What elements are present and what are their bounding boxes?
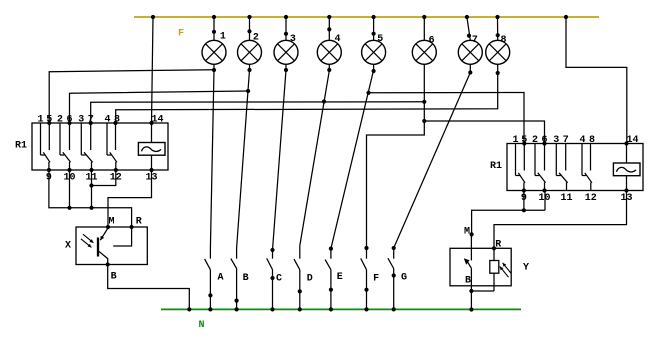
svg-text:4: 4 <box>579 135 585 146</box>
svg-text:G: G <box>401 272 407 283</box>
svg-text:M: M <box>464 226 470 237</box>
svg-text:2: 2 <box>532 135 538 146</box>
svg-text:Y: Y <box>523 263 529 274</box>
svg-text:8: 8 <box>589 135 595 146</box>
svg-text:1: 1 <box>220 31 226 42</box>
svg-text:1: 1 <box>512 135 518 146</box>
svg-text:B: B <box>465 276 471 287</box>
svg-text:B: B <box>243 273 249 284</box>
svg-text:D: D <box>307 274 313 285</box>
svg-text:2: 2 <box>57 115 63 126</box>
svg-text:M: M <box>109 217 115 228</box>
svg-text:A: A <box>218 273 224 284</box>
svg-text:11: 11 <box>560 193 572 204</box>
svg-text:F: F <box>178 29 184 40</box>
svg-text:1: 1 <box>37 115 43 126</box>
svg-text:R: R <box>495 240 501 251</box>
svg-text:3: 3 <box>78 115 84 126</box>
svg-text:3: 3 <box>553 135 559 146</box>
svg-text:C: C <box>276 273 282 284</box>
svg-text:4: 4 <box>104 115 110 126</box>
svg-text:7: 7 <box>563 135 569 146</box>
svg-text:X: X <box>65 241 71 252</box>
svg-text:R1: R1 <box>490 161 502 172</box>
svg-text:E: E <box>337 272 343 283</box>
svg-text:N: N <box>199 320 205 331</box>
svg-text:R1: R1 <box>15 141 27 152</box>
svg-text:B: B <box>111 272 117 283</box>
svg-text:R: R <box>136 217 142 228</box>
svg-text:12: 12 <box>585 193 597 204</box>
svg-text:F: F <box>373 274 379 285</box>
